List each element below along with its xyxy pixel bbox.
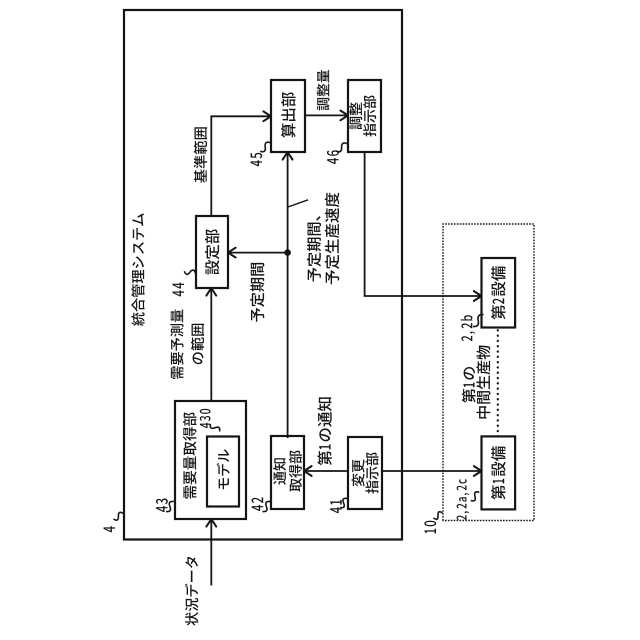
ref 430 (200, 409, 211, 428)
label: first intermediate line2 (476, 346, 490, 419)
arrowhead into equipment2 top (474, 291, 482, 301)
label: first notification (317, 397, 331, 465)
arrowhead into box45 top (263, 111, 271, 121)
arrowhead into box44 left (206, 288, 216, 296)
box430 title model (217, 449, 230, 489)
box 45 calculation unit (271, 80, 305, 152)
ref 4 (104, 526, 115, 532)
label: demand forecast range line2 (191, 324, 204, 364)
ref 42 (252, 497, 264, 510)
box equipment 1 (482, 436, 516, 509)
ref 44 (173, 283, 184, 297)
ref 43 (156, 499, 168, 512)
box equipment 2 (482, 258, 516, 328)
arrowhead into box43 (206, 519, 216, 527)
wire: box41 to box42 (first notification) (306, 470, 349, 472)
leader tick for label planned period/speed (288, 200, 309, 207)
label: planned period line1 (307, 216, 321, 281)
dashed box: production line (10) (443, 224, 534, 521)
ref 10 (424, 521, 436, 534)
box 46 adjustment instruction (348, 80, 381, 152)
box43 title (183, 412, 197, 498)
arrowhead into box45 left (283, 152, 293, 160)
wire: dotted intermediate product (497, 328, 499, 437)
label: demand forecast range line1 (170, 309, 183, 379)
wire: junction up to box44 (planned period) (230, 252, 288, 254)
wire: box44 to box45 (reference range) (211, 116, 269, 216)
arrowhead into box46 top (340, 111, 348, 121)
box44 title (205, 229, 219, 274)
wire: box42 to box45 (planned period/speed) (287, 154, 289, 439)
leader 430 (210, 424, 219, 432)
label: first intermediate line1 (462, 367, 476, 403)
box 41 change instruction (348, 437, 382, 509)
box 42 notification acquisition (271, 436, 304, 509)
box41 title line2 (365, 452, 378, 493)
arrowhead into box44 bottom (228, 248, 236, 258)
label: planned production speed line2 (325, 193, 339, 285)
leader 2,2a,2c (471, 492, 480, 501)
wire: box41 to equipment1 (382, 470, 480, 472)
ref 2,2a,2c (457, 479, 470, 520)
equipment2 title (491, 266, 505, 319)
box 43 demand acquisition (175, 401, 246, 519)
ref 41 (330, 500, 341, 513)
ref 45 (251, 153, 263, 166)
box42 title line2 (289, 450, 302, 491)
box42 title line1 (273, 458, 286, 484)
box 44 setting unit (196, 216, 228, 288)
ref 2,2b (461, 315, 475, 341)
box46 title line1 (349, 102, 362, 129)
label: adjustment amount (317, 70, 330, 110)
wire: box43 to box44 (210, 290, 212, 402)
wire: box45 to box46 (adjustment amount) (305, 114, 347, 116)
box41 title line1 (351, 459, 364, 486)
box 430 model (207, 437, 239, 507)
box45 title (281, 92, 295, 138)
leader 10 (434, 512, 443, 520)
wire: status data into box43 (210, 521, 212, 586)
box46 title line2 (363, 95, 376, 136)
junction dot (284, 249, 291, 256)
label: reference range (194, 127, 207, 183)
outer box: integrated management system (4) (124, 10, 402, 540)
arrowhead into equipment1 top (474, 466, 482, 476)
label: integrated management system (131, 213, 144, 325)
leader 4 (114, 512, 124, 520)
ref 46 (327, 150, 339, 164)
leader 43 (166, 501, 174, 511)
leader 41 (340, 498, 347, 507)
leader 2,2b (473, 314, 484, 326)
label: planned period (250, 263, 264, 322)
label: status data (185, 557, 198, 626)
equipment1 title (491, 446, 505, 499)
leader 44 (184, 270, 195, 274)
leader 42 (263, 501, 271, 511)
leader 46 (336, 143, 347, 152)
leader 45 (260, 142, 270, 152)
wire: box46 to equipment2 (365, 152, 480, 296)
arrowhead into box42 bottom (304, 466, 312, 476)
